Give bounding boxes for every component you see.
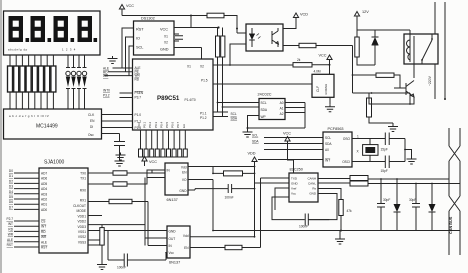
svg-text:RST: RST [7,243,13,247]
P89C51 left control wires with net labels [105,68,133,76]
svg-text:D7: D7 [9,205,13,209]
svg-text:VCC: VCC [319,54,327,58]
oscillator VCC arrow [327,55,332,65]
svg-text:EA: EA [182,124,186,128]
digit 1 [9,16,98,42]
relay driver transistor Q5 [394,64,414,99]
svg-text:DI: DI [90,125,93,129]
pull-up wires down to SCL SDA nets [213,57,228,117]
svg-text:GND: GND [309,192,317,196]
svg-text:Vdd: Vdd [183,234,189,238]
svg-text:~220V: ~220V [428,75,432,86]
svg-text:P1.2: P1.2 [200,116,207,120]
svg-text:GND: GND [179,189,187,193]
INT pull-up resistor R20 [367,98,372,117]
svg-text:P1.0: P1.0 [135,113,142,117]
6N137 U5 wires [147,167,255,191]
svg-text:2k: 2k [297,58,301,62]
bus clamp diode D2 [394,179,401,231]
long bottom return wire [213,230,460,232]
svg-text:RD: RD [41,230,46,234]
svg-text:PSEN: PSEN [135,91,144,95]
ground for 82C250 [339,231,341,237]
PCF8563 U9 box [323,132,352,167]
wire P1.5 to base resistor [213,64,293,66]
decoupling loop wires [107,231,109,261]
RX0 wire and series resistor R14 [88,201,148,203]
svg-text:D1: D1 [9,174,13,178]
svg-text:P0.3: P0.3 [154,121,158,128]
svg-text:RST: RST [41,246,47,250]
U7 phototransistor [272,28,278,47]
24C02C right wires to ground [248,103,306,129]
svg-text:D3: D3 [9,185,13,189]
svg-text:SCL: SCL [136,46,143,50]
wire rail junction down to optocoupler input [237,32,246,34]
svg-text:Rs: Rs [312,187,316,191]
svg-text:AD0: AD0 [41,208,47,212]
ground for 24C02C [243,130,253,138]
24C02C U8 box [259,99,285,120]
optocoupler U7 box [246,24,283,51]
VCC arrow top left of DS1302 [119,5,124,15]
svg-text:CANH: CANH [307,177,316,181]
100nF cap C6 [228,184,231,193]
svg-text:PCF8563: PCF8563 [328,127,344,131]
6N137 U6 optocoupler box [167,226,190,258]
svg-text:6N137: 6N137 [169,261,180,265]
svg-text:Vcc: Vcc [169,251,175,255]
82C250 output bus wires [318,179,460,184]
pull-up resistor on opto output R16 [224,171,243,176]
pull-up resistor R9 on rail [191,15,207,17]
svg-text:30pF: 30pF [409,198,416,202]
svg-text:P3.2: P3.2 [103,94,110,98]
svg-text:INT: INT [41,225,46,229]
svg-text:abcdefg dp: abcdefg dp [8,48,28,52]
100nF cap C5 bottom left [108,253,166,267]
svg-text:CAN BUS: CAN BUS [449,216,453,234]
svg-text:VCD: VCD [300,13,308,17]
svg-text:D6: D6 [9,200,13,204]
82C250 U10 box [289,173,318,202]
svg-text:SCL: SCL [261,101,267,105]
svg-text:RST: RST [136,28,144,32]
pull-up resistor array RP1 [139,149,188,157]
6N137 U5 optocoupler box [165,163,188,195]
svg-text:AD7: AD7 [41,172,47,176]
dp 4 [94,38,98,42]
svg-text:X2: X2 [164,41,168,45]
svg-text:CANL: CANL [308,182,316,186]
load resistor R18 [299,43,316,47]
svg-text:30pF: 30pF [383,198,390,202]
svg-text:RD: RD [8,227,13,231]
U7 LED [249,28,261,47]
svg-text:Vref: Vref [291,187,297,191]
loop wire on 82C250 left [272,197,329,220]
svg-text:RX1: RX1 [80,199,86,203]
oscillator capacitor on MC14499 [102,134,126,159]
svg-text:MODE: MODE [76,209,86,213]
svg-text:INT: INT [8,222,13,226]
svg-text:A0: A0 [325,148,329,152]
svg-text:P0.2: P0.2 [148,121,152,128]
series resistor R13 [113,182,127,186]
SJA1000 VDD wires [88,216,145,246]
bus filter cap C10 [377,179,385,231]
svg-text:VDD2: VDD2 [77,220,86,224]
svg-text:DS1302: DS1302 [141,17,155,21]
PCF8563 crystal Y1 [352,133,412,169]
svg-text:VSS2: VSS2 [78,235,86,239]
svg-text:100nF: 100nF [117,266,126,270]
svg-text:P2.7: P2.7 [6,217,13,221]
SCL SDA wires to PCF8563 [258,138,323,160]
svg-text:VDD1: VDD1 [77,214,86,218]
ground top middle [116,153,126,161]
svg-text:WR: WR [41,235,47,239]
dp 3 [71,38,75,42]
svg-text:SCL: SCL [231,112,237,116]
SJA1000 control wires with labels [14,221,39,247]
CAN bus twisted pair [449,128,460,255]
MC14499 to P89C51 wires [102,115,133,128]
digit 2 [31,16,46,42]
flyback diode D1 [357,37,379,65]
svg-text:15pF: 15pF [381,169,388,173]
svg-text:RX0: RX0 [80,189,86,193]
svg-text:GND: GND [291,182,299,186]
VCC rail wire [122,14,191,16]
emitter ground wire [339,92,341,94]
svg-text:X2: X2 [200,65,204,69]
DS1302 U3 box [134,21,175,55]
svg-text:4.0M: 4.0M [314,70,321,74]
svg-text:SCL: SCL [325,136,331,140]
VDD arrow mid [252,157,257,167]
svg-text:P0.1: P0.1 [143,121,147,128]
svg-text:P0.7: P0.7 [176,121,180,128]
svg-text:SJA1000: SJA1000 [44,160,65,166]
svg-text:MC14499: MC14499 [36,124,58,130]
svg-text:SDA: SDA [261,108,268,112]
Rs resistor R21 [318,189,341,200]
svg-text:P89C51: P89C51 [157,95,180,102]
oscillator ground [329,97,331,104]
base resistor R19 [293,63,312,67]
SJA1000 TX0 wire and series resistor R12 [88,170,165,184]
svg-text:A0: A0 [280,101,284,105]
ground below MC14499 osc cap [115,159,125,167]
svg-text:P0.0: P0.0 [137,121,141,128]
vertical link wires into U6 [141,178,148,246]
U7 input wires [230,33,246,65]
svg-text:VCC: VCC [160,28,168,32]
SJA1000 VSS pull resistor R15 [101,225,103,228]
svg-text:1: 1 [357,135,359,139]
svg-text:TX0: TX0 [80,172,86,176]
svg-text:P3.7: P3.7 [135,96,142,100]
digit 3 [54,16,69,42]
svg-text:CLK: CLK [88,113,95,117]
svg-text:OSO: OSO [343,137,351,141]
svg-text:100nF: 100nF [225,196,234,200]
svg-text:P0.6: P0.6 [171,121,175,128]
ground below SJA1000 [97,262,107,270]
SJA1000 address bus wires with labels D0-D7 [14,173,39,209]
digit 4 [78,16,93,42]
svg-text:SDA: SDA [325,142,332,146]
svg-text:6N137: 6N137 [167,198,178,202]
7-segment display DS1 box [4,11,101,55]
82C250 left wires [275,188,289,210]
segment wires from display to resistor bank [10,55,53,66]
DS1302 left pin wires down to MCU [122,28,134,76]
digit driver transistors Q1-Q4 [66,55,87,109]
svg-text:AD1: AD1 [41,203,47,207]
wires resistor bank to MC14499 [10,92,53,109]
svg-text:GND: GND [160,48,169,52]
page left edge border [0,0,2,273]
svg-text:AD4: AD4 [41,187,47,191]
svg-text:WR: WR [8,233,14,237]
rail wire right of R9 [224,16,237,29]
svg-text:X1: X1 [164,35,168,39]
svg-text:P1.4/T0: P1.4/T0 [185,98,196,102]
svg-text:IO: IO [136,37,140,41]
svg-text:100nF: 100nF [299,225,308,229]
svg-text:A1: A1 [280,107,284,111]
svg-text:VDD: VDD [248,152,256,156]
relay coil feed wires [357,21,410,37]
svg-text:D4: D4 [9,190,13,194]
decoupling cap C9 [305,214,308,226]
SJA1000 left pin names AD7-AD0 [41,172,47,250]
svg-text:D0: D0 [9,169,13,173]
svg-text:VCC: VCC [283,132,291,136]
I2C pull-up resistors R10 R11 [218,28,238,37]
svg-text:SCL: SCL [252,134,258,138]
svg-text:P1.1: P1.1 [200,112,207,116]
svg-text:AD3: AD3 [41,192,47,196]
svg-text:CS: CS [41,220,45,224]
P89C51 U1 box [133,59,214,130]
relay K1 [404,34,438,64]
SJA1000 right pin names [73,172,86,245]
12V supply arrow [354,12,359,22]
oscillator output wire to MCU [213,83,312,85]
24C02C left wires with SCL SDA labels [218,103,260,129]
svg-text:AD2: AD2 [41,198,47,202]
svg-text:WR: WR [103,74,109,78]
svg-text:VSS3: VSS3 [78,240,86,244]
svg-text:AD5: AD5 [41,182,47,186]
U7 output wires and VCD arrow [283,23,299,46]
svg-text:4.00MHz: 4.00MHz [324,83,328,95]
VCC arrow for 82C250 [285,137,290,147]
svg-text:WP: WP [261,115,266,119]
svg-text:VCC: VCC [126,4,134,8]
common mode choke L1 [350,176,368,181]
dropping resistor R22 [355,37,359,57]
svg-text:ALE: ALE [41,240,47,244]
svg-text:EN: EN [90,119,95,123]
svg-text:SDA: SDA [252,140,259,144]
svg-text:VCC: VCC [149,160,157,164]
P89C51 bottom pin names (rotated) [137,121,186,128]
svg-text:OSCI: OSCI [342,160,350,164]
svg-text:RD: RD [135,77,140,81]
svg-text:82C250: 82C250 [290,168,303,172]
bus clamp diode D3 [429,184,436,231]
6N137 U6 pin names [169,230,177,256]
svg-text:D2: D2 [9,179,13,183]
svg-text:TXD: TXD [291,177,298,181]
DS1302 GND pin wire to MCU top [174,48,202,60]
svg-text:VO: VO [182,178,187,182]
svg-text:TX1: TX1 [80,177,86,181]
svg-text:SDA: SDA [231,117,238,121]
svg-text:Vcc: Vcc [291,192,297,196]
svg-text:P0.4: P0.4 [159,121,163,128]
MC14499 U2 box [4,109,102,139]
svg-text:X1: X1 [187,65,191,69]
svg-text:12V: 12V [362,10,369,14]
ceramic oscillator module box [312,74,334,97]
dp 1 [26,38,30,42]
svg-text:EN: EN [184,246,189,250]
series resistor R17 [225,245,242,249]
svg-text:1 2 3 4: 1 2 3 4 [62,48,76,52]
ground above P89C51 [108,56,118,64]
svg-text:Vdd: Vdd [181,166,187,170]
svg-text:EN: EN [182,171,187,175]
ground for crystal circuit [407,157,417,165]
svg-text:A2: A2 [280,112,284,116]
svg-text:VSS1: VSS1 [78,230,86,234]
base resistor R23 [376,73,394,77]
6N137 U6 wires [108,178,289,253]
svg-text:P1.5: P1.5 [201,79,208,83]
DS1302 backup crystal X2 [174,34,183,41]
svg-text:OUT: OUT [169,237,176,241]
svg-text:INT0: INT0 [103,89,110,93]
svg-text:VDD3: VDD3 [77,225,86,229]
dp 2 [48,38,52,42]
svg-text:P0.5: P0.5 [165,121,169,128]
svg-text:D5: D5 [9,195,13,199]
bus filter cap C11 [412,184,420,231]
wire resistor bottom to transistor area [374,57,376,65]
svg-text:AD6: AD6 [41,177,47,181]
svg-text:47k: 47k [347,209,353,213]
svg-text:INT: INT [325,159,330,163]
svg-text:CLF: CLF [316,86,320,92]
svg-text:15pF: 15pF [381,148,388,152]
svg-text:ALE: ALE [7,238,13,242]
relay to mains wires [435,2,445,99]
svg-text:24C02C: 24C02C [258,93,272,97]
svg-text:Osc: Osc [88,133,94,137]
SJA1000 U4 box [39,168,88,253]
VCC arrow feeding pull-up array [141,156,186,158]
svg-text:GND: GND [169,230,177,234]
82C250 VCC wire [288,147,294,173]
segment resistor bank R1-R8 [8,66,56,92]
ground for R20 [388,124,398,132]
P89C51 bottom port wires down to pull-up array [141,130,186,149]
svg-text:CLKOUT: CLKOUT [73,204,86,208]
svg-text:a b c d e f g h I II III IV: a b c d e f g h I II III IV [9,114,49,118]
DS1302 VCC pin wire to rail [174,16,219,28]
